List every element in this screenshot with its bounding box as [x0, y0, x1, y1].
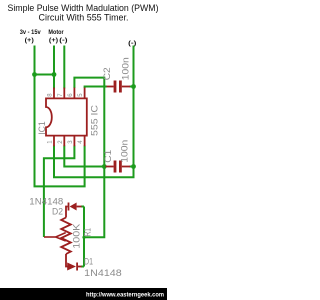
svg-text:100n: 100n: [119, 140, 129, 163]
svg-text:(+): (+): [25, 38, 34, 44]
svg-text:555 IC: 555 IC: [90, 104, 100, 136]
diode D2 lead: [77, 206, 82, 208]
capacitor C2 leads: [107, 86, 114, 88]
junction dot power rail: [32, 72, 37, 77]
diode D1 lead: [78, 266, 82, 268]
op IC1 555 body: [46, 98, 87, 135]
diode D1 cathode bar: [76, 263, 78, 271]
pin 1 stub: [53, 136, 55, 147]
svg-text:http://www.easterngeek.com: http://www.easterngeek.com: [86, 291, 164, 298]
svg-text:1N4148: 1N4148: [84, 268, 122, 278]
footer banner: [0, 288, 167, 300]
pin 5 stub: [84, 88, 86, 99]
wire VCC rail from (+) down, right and up to pin 4: [35, 46, 85, 187]
pin 2 stub: [63, 136, 65, 147]
junction dot diode link node: [82, 236, 85, 239]
diode D1 triangle: [67, 263, 76, 271]
svg-text:Circuit With 555 Timer.: Circuit With 555 Timer.: [39, 12, 129, 22]
diode D2 triangle: [70, 203, 77, 211]
wire pin 6 to trigger node down to pot network: [74, 78, 104, 238]
diode D2 cathode bar: [68, 203, 70, 211]
pin 8 stub: [53, 88, 55, 99]
capacitor C1 leads: [106, 166, 114, 168]
svg-text:1N4148: 1N4148: [29, 197, 63, 207]
wire pin 2 to C1 left: [64, 146, 104, 167]
svg-text:R1: R1: [82, 228, 92, 237]
wire diode link vertical: [83, 207, 85, 267]
svg-text:3v - 15v: 3v - 15v: [20, 30, 42, 36]
junction dot motor+ pin8: [52, 72, 57, 77]
wire C2 right to rail: [130, 86, 134, 88]
potentiometer R1 bottom lead: [66, 254, 68, 267]
wire pin 3 loop to pot wiper: [44, 146, 75, 238]
svg-text:D1: D1: [84, 257, 93, 267]
pin 6 stub: [73, 88, 75, 99]
wire junction link power to motor+: [35, 74, 55, 76]
potentiometer R1 top lead: [66, 207, 68, 218]
junction dot C2 right: [131, 84, 136, 89]
svg-text:(-): (-): [59, 38, 67, 44]
svg-text:(-): (-): [128, 41, 136, 47]
wire C1 right to rail: [130, 166, 134, 168]
wire D2 anode to link: [81, 206, 84, 208]
svg-text:C1: C1: [103, 150, 113, 163]
potentiometer R1 wiper: [44, 236, 56, 238]
svg-text:100K: 100K: [72, 224, 82, 249]
capacitor C1 plates: [114, 161, 117, 173]
wire motor (-) to pin 7: [63, 46, 65, 89]
wire D1 cathode to link: [81, 266, 84, 268]
capacitor C2 plates: [114, 81, 117, 93]
junction dot C1 left trigger node: [102, 164, 107, 169]
wire pin 1 ground run to (-) rail: [54, 146, 134, 178]
svg-text:Simple Pulse Width Madulation: Simple Pulse Width Madulation (PWM): [8, 3, 159, 13]
pin 7 stub: [63, 88, 65, 99]
svg-text:Motor: Motor: [48, 30, 64, 36]
svg-text:D2: D2: [52, 207, 63, 217]
wire motor (+) to pin 8: [53, 46, 55, 89]
junction dot C1 right rail: [131, 164, 136, 169]
svg-text:C2: C2: [102, 67, 112, 80]
pin 4 stub: [84, 136, 86, 147]
pin 3 stub: [73, 136, 75, 147]
svg-text:100n: 100n: [121, 57, 131, 80]
svg-text:IC1: IC1: [37, 121, 47, 135]
potentiometer R1 zigzag: [61, 218, 71, 255]
wire pin 5 to C2: [85, 87, 107, 89]
svg-text:(+): (+): [49, 38, 58, 44]
wire (-) rail down right side: [133, 46, 135, 167]
